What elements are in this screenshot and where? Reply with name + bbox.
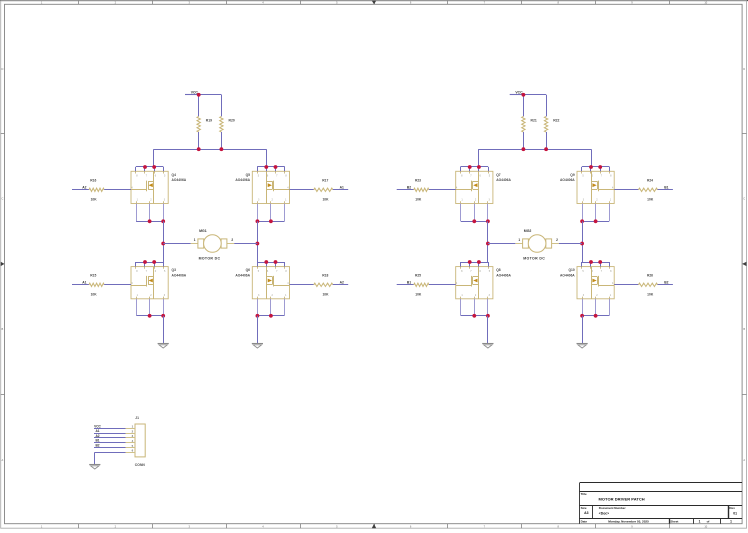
transistor Q3 [131,267,187,299]
svg-text:D: D [1,67,3,71]
junction rail-R19 [197,147,201,151]
svg-text:B: B [743,327,745,331]
svg-text:AO4406A: AO4406A [172,178,187,182]
svg-text:VCC: VCC [94,424,101,428]
transistor Q9 [560,171,614,203]
svg-text:R16: R16 [90,179,96,183]
junction [580,219,584,223]
node B2 [664,281,668,285]
wire pullups to drain rail [154,132,267,167]
ground [252,344,263,349]
power VCC (left) [185,91,199,95]
resistor R17 [290,179,349,202]
svg-text:10K: 10K [647,197,654,201]
node A1 [340,186,344,190]
node A2 [82,186,86,190]
svg-text:Date: Date [581,520,588,524]
wire to ground right [257,316,259,344]
junction [472,314,476,318]
svg-text:A1: A1 [82,281,86,285]
wire left leg trunk [487,221,489,262]
junction [274,260,278,264]
wire source bus Q5 [257,204,284,222]
wire drain bus Q6 [257,262,285,267]
wire VCC to pullup branch [523,95,546,117]
svg-text:10K: 10K [322,197,329,201]
connector J1 [126,416,146,467]
junction [256,314,260,318]
junction [269,219,273,223]
svg-text:10K: 10K [322,292,329,296]
svg-text:Q8: Q8 [496,268,501,272]
svg-text:Q10: Q10 [568,268,574,272]
junction [468,260,472,264]
svg-text:J1: J1 [135,416,139,420]
svg-text:10K: 10K [91,197,98,201]
svg-text:1: 1 [518,238,520,242]
svg-text:B: B [2,327,4,331]
junction [264,260,268,264]
transistor Q10 [560,267,614,299]
wire drain bus Q8 [460,262,488,267]
wire drain bus Q10 [582,262,610,267]
svg-text:AO4406A: AO4406A [172,273,187,277]
svg-text:10K: 10K [647,292,654,296]
junction at VCC pin [522,93,526,97]
resistor R19 [197,116,212,132]
wire right leg trunk [257,221,259,262]
wire motor left [488,243,515,245]
resistor R22 [544,116,559,132]
junction [274,165,278,169]
wire J1 pin 5 net B2 [94,444,126,448]
wire J1 pin 4 net B1 [94,439,126,443]
wire right leg trunk [582,221,584,262]
junction [161,314,165,318]
transistor Q7 [456,171,512,203]
svg-text:Sheet: Sheet [670,520,678,524]
junction [472,219,476,223]
svg-text:A3: A3 [584,511,588,515]
junction rail-R20 [220,147,224,151]
svg-text:R20: R20 [229,119,235,123]
svg-text:R24: R24 [647,179,653,183]
svg-text:1: 1 [194,238,196,242]
wire drain bus Q9 [582,167,610,172]
junction [468,165,472,169]
junction [594,219,598,223]
resistor R21 [522,116,537,132]
svg-text:Q3: Q3 [172,268,177,272]
svg-text:R18: R18 [322,274,328,278]
junction [143,260,147,264]
svg-text:B2: B2 [95,444,99,448]
node B1 [664,186,668,190]
resistor R20 [220,116,235,132]
wire J1 pin 1 net VCC [94,424,126,428]
svg-text:2: 2 [231,238,233,242]
ground J1 [89,465,100,470]
svg-text:A: A [2,458,4,462]
wire J1 pin 6 to ground [95,452,126,464]
resistor R18 [290,274,349,297]
ground [158,344,169,349]
wire source bus Q3 [136,299,164,316]
svg-text:Q7: Q7 [496,173,501,177]
node A1 [82,281,86,285]
svg-text:B1: B1 [664,186,668,190]
svg-text:B2: B2 [407,186,411,190]
junction [477,165,481,169]
svg-text:10K: 10K [415,292,422,296]
junction [152,165,156,169]
svg-text:Rev: Rev [729,506,735,510]
wire source bus Q10 [582,299,609,316]
wire to ground left [163,316,165,344]
wire J1 pin 2 net A1 [94,429,126,433]
svg-text:C: C [743,197,745,201]
svg-text:Document Number: Document Number [599,506,627,510]
wire source bus Q7 [461,204,488,222]
resistor R16 [72,179,131,202]
svg-text:B1: B1 [407,281,411,285]
svg-text:R23: R23 [415,179,421,183]
transistor Q8 [456,267,512,299]
wire drain bus Q3 [136,262,164,267]
svg-text:AO4406A: AO4406A [560,273,575,277]
transistor Q5 [235,171,289,203]
svg-text:C: C [1,197,3,201]
svg-text:R25: R25 [415,274,421,278]
svg-text:<Doc>: <Doc> [599,512,609,516]
junction [580,314,584,318]
ground [482,344,493,349]
resistor R15 [72,274,131,297]
junction [594,314,598,318]
wire to ground right [582,316,584,344]
svg-text:MOTOR DRIVER PATCH: MOTOR DRIVER PATCH [599,496,645,501]
wire pullups to drain rail [478,132,591,167]
wire source bus Q8 [461,299,488,316]
svg-text:AO4406A: AO4406A [235,178,250,182]
svg-text:MOTOR DC: MOTOR DC [199,257,221,261]
junction motor node right [580,242,584,246]
junction [148,219,152,223]
svg-text:B1: B1 [95,439,99,443]
wire drain bus Q5 [257,167,285,172]
motor MG2 [515,229,559,260]
svg-text:R17: R17 [322,179,328,183]
junction [598,260,602,264]
wire motor right [234,243,257,245]
junction motor node left [161,242,165,246]
svg-text:01: 01 [733,511,737,515]
svg-text:Q9: Q9 [570,173,575,177]
junction [589,260,593,264]
svg-text:A: A [743,458,745,462]
wire to ground left [487,316,489,344]
svg-text:B2: B2 [664,281,668,285]
junction [143,165,147,169]
svg-text:A2: A2 [82,186,86,190]
junction [256,219,260,223]
svg-text:CONN: CONN [135,463,146,467]
junction [269,314,273,318]
junction rail-R21 [522,147,526,151]
svg-text:MG2: MG2 [524,229,532,233]
junction motor node right [256,242,260,246]
ground [577,344,588,349]
svg-text:R19: R19 [206,119,212,123]
svg-text:A2: A2 [95,434,99,438]
junction [264,165,268,169]
wire VCC to pullup branch [199,95,222,117]
svg-text:D: D [743,67,745,71]
wire left leg trunk [163,221,165,262]
svg-text:A1: A1 [340,186,344,190]
svg-text:R26: R26 [647,274,653,278]
svg-text:AO4406A: AO4406A [560,178,575,182]
junction [598,165,602,169]
svg-text:AO4406A: AO4406A [496,273,511,277]
resistor R24 [614,179,673,202]
svg-text:Q4: Q4 [172,173,177,177]
node A2 [340,281,344,285]
junction [477,260,481,264]
svg-text:1: 1 [730,520,732,524]
junction at VCC pin [197,93,201,97]
svg-text:A1: A1 [95,429,99,433]
junction [486,219,490,223]
svg-text:Q6: Q6 [246,268,251,272]
svg-text:2: 2 [556,238,558,242]
transistor Q4 [131,171,187,203]
power VCC (right) [510,91,524,95]
motor MG1 [191,229,235,260]
junction [486,314,490,318]
svg-text:10K: 10K [415,197,422,201]
svg-text:R15: R15 [90,274,96,278]
wire J1 pin 3 net A2 [94,434,126,438]
wire motor right [559,243,582,245]
junction [148,314,152,318]
junction [152,260,156,264]
svg-text:R21: R21 [531,119,537,123]
wire source bus Q4 [136,204,164,222]
wire drain bus Q4 [136,167,164,172]
wire drain bus Q7 [460,167,488,172]
transistor Q6 [235,267,289,299]
resistor R23 [397,179,456,202]
svg-text:MG1: MG1 [199,229,207,233]
svg-text:MOTOR DC: MOTOR DC [523,257,545,261]
junction motor node left [486,242,490,246]
wire source bus Q6 [257,299,284,316]
wire motor left [163,243,190,245]
svg-text:Size: Size [581,506,587,510]
junction [161,219,165,223]
svg-text:Title: Title [581,492,587,496]
svg-text:10K: 10K [91,292,98,296]
svg-text:Monday, November 03, 2025: Monday, November 03, 2025 [608,520,649,524]
svg-text:A2: A2 [340,281,344,285]
resistor R25 [397,274,456,297]
node B2 [407,186,411,190]
svg-text:Q5: Q5 [246,173,251,177]
wire source bus Q9 [582,204,609,222]
svg-text:of: of [707,520,710,524]
svg-text:1: 1 [699,520,701,524]
svg-text:AO4406A: AO4406A [235,273,250,277]
svg-text:AO4406A: AO4406A [496,178,511,182]
junction [589,165,593,169]
svg-text:R22: R22 [553,119,559,123]
junction rail-R22 [544,147,548,151]
resistor R26 [614,274,673,297]
node B1 [407,281,411,285]
